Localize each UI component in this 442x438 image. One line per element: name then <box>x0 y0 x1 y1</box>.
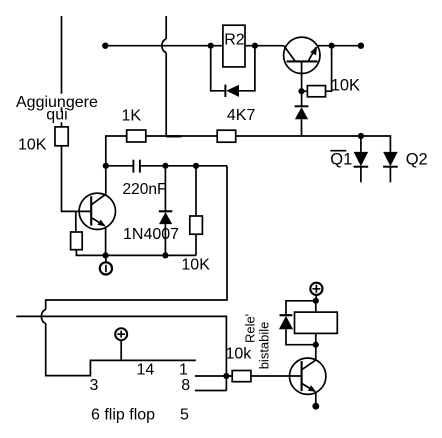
svg-text:bistabile: bistabile <box>257 322 272 370</box>
supply plus (flip flop) <box>115 328 127 360</box>
resistor 10K (top right) <box>302 46 332 97</box>
svg-text:1N4007: 1N4007 <box>123 226 179 243</box>
wire vertical down to mid rail <box>165 53 167 137</box>
wire capacitor to corner <box>140 165 227 167</box>
resistor 1K <box>127 130 146 142</box>
junction <box>223 373 229 379</box>
junction <box>208 43 214 49</box>
wire net input left vertical <box>61 16 63 127</box>
wire vertical with hop <box>165 16 167 39</box>
diode (under top transistor) <box>295 106 309 136</box>
resistor 10K (Aggiungere qui) <box>55 127 68 146</box>
svg-text:220nF: 220nF <box>123 181 167 198</box>
wire top rail left <box>105 45 223 47</box>
wire mid rail right with corner down to Q2 <box>236 136 391 152</box>
wire hop <box>162 39 166 53</box>
relay coil box <box>295 301 338 345</box>
svg-text:6 flip flop: 6 flip flop <box>91 407 155 424</box>
svg-text:R2: R2 <box>224 32 245 49</box>
transistor (bottom-left NPN) <box>79 193 115 229</box>
svg-text:5: 5 <box>180 407 189 424</box>
svg-text:Rele': Rele' <box>243 314 258 343</box>
wire resistor to base <box>251 375 301 377</box>
wire bottom rail <box>76 250 196 256</box>
junction <box>252 43 258 49</box>
junction node (cap / collector) <box>103 163 109 169</box>
resistor (base-emitter, unlabeled) <box>71 232 83 250</box>
label qui <box>45 112 68 122</box>
label Aggiungere <box>15 94 99 108</box>
resistor R2 <box>223 25 245 67</box>
svg-text:3: 3 <box>90 377 99 394</box>
junction <box>162 163 168 169</box>
svg-text:8: 8 <box>181 377 190 394</box>
wire R2 to transistor <box>245 45 285 47</box>
svg-text:10k: 10k <box>226 346 253 363</box>
connector 1 <box>100 255 112 274</box>
svg-text:Q1: Q1 <box>330 151 352 169</box>
diode Q1 (pointing down) <box>354 152 369 182</box>
wire mid rail <box>146 135 217 137</box>
junction <box>298 88 304 94</box>
resistor 4K7 <box>217 130 236 142</box>
terminal dot <box>358 43 364 49</box>
wire Q1 stub <box>360 136 362 152</box>
wire to base of Q bottom-left <box>62 146 91 212</box>
wire emitter down <box>105 226 107 255</box>
svg-text:14: 14 <box>137 362 155 379</box>
wire Q1-net down to base resistor <box>16 316 226 390</box>
junction diode node <box>162 252 168 258</box>
junction <box>329 43 335 49</box>
junction <box>313 298 319 304</box>
wire overlap segment <box>166 135 181 137</box>
svg-text:10K: 10K <box>181 257 210 274</box>
diode (across R2, pointing left) <box>211 46 255 97</box>
resistor 10K (mid) <box>190 166 203 256</box>
wire emitter down <box>315 392 317 406</box>
svg-text:10K: 10K <box>18 137 47 154</box>
resistor 10k (T2 base) <box>232 371 251 382</box>
wire pin 1 <box>195 375 232 377</box>
terminal dot <box>312 403 319 410</box>
junction <box>193 163 199 169</box>
wire hop over <box>41 310 45 324</box>
svg-text:qui: qui <box>46 106 67 123</box>
supply plus (relay) <box>310 283 322 301</box>
transistor (top NPN rotated) <box>284 37 320 73</box>
svg-text:4K7: 4K7 <box>227 107 256 124</box>
junction <box>313 342 319 348</box>
transistor (bottom-right NPN) <box>290 358 326 394</box>
wire base down <box>301 61 303 106</box>
diode Q2 (pointing down) <box>383 152 398 182</box>
wire transistor to end dot <box>318 45 361 47</box>
svg-text:Q2: Q2 <box>406 151 428 169</box>
junction emitter node <box>103 252 109 258</box>
svg-text:10K: 10K <box>331 76 360 94</box>
wire collector up <box>315 345 317 361</box>
junction <box>358 133 364 139</box>
diode (relay flyback) <box>279 301 316 345</box>
diode 1N4007 <box>159 166 173 256</box>
wire base resistor drop <box>75 211 77 232</box>
capacitor 220nF <box>133 160 140 173</box>
wire continue to pin3 and pin line <box>46 323 196 375</box>
label Q1 with overline <box>330 151 352 169</box>
wire long feedback to pin 3 <box>46 166 227 310</box>
wire pin 8 <box>195 390 227 392</box>
svg-text:1K: 1K <box>122 107 142 124</box>
wire node to capacitor <box>106 165 134 167</box>
wire collector up to node and 1K <box>106 136 127 195</box>
terminal dot <box>102 43 108 49</box>
